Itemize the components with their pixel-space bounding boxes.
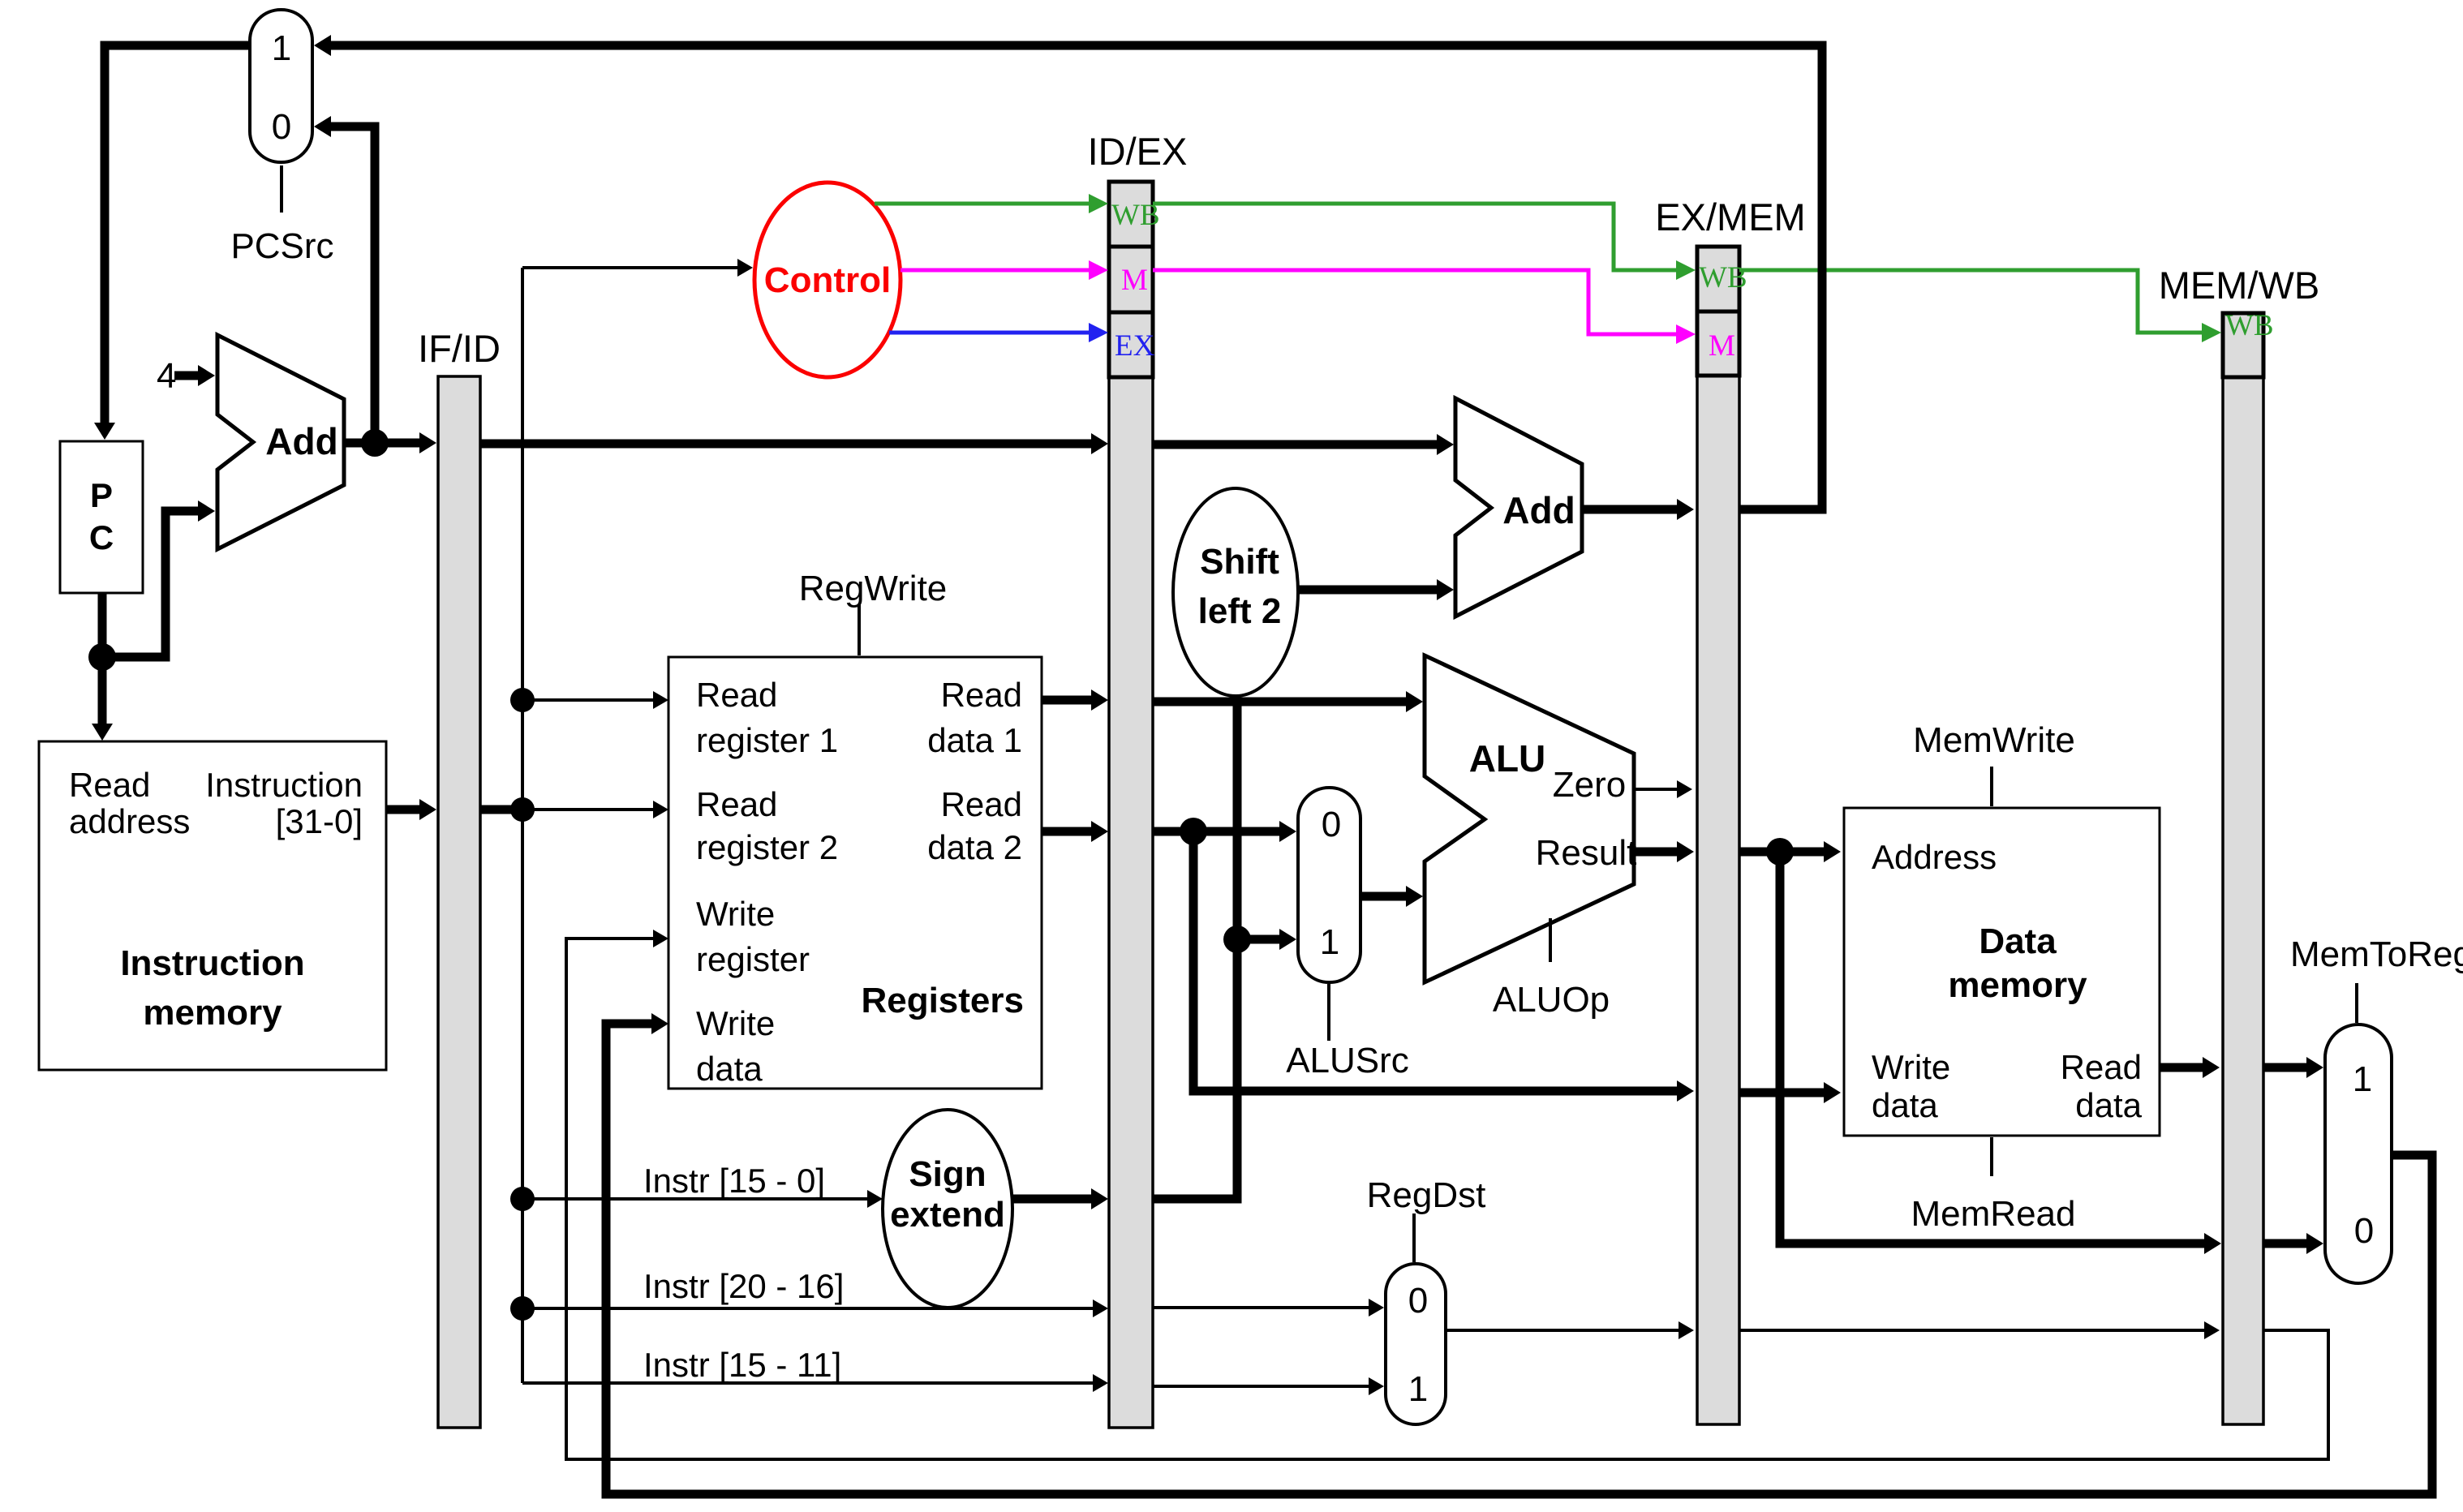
wire: ALU result MEM/WB to MemToReg mux 0 — [2263, 1233, 2323, 1254]
svg-text:WB: WB — [2225, 309, 2274, 342]
svg-text:Read: Read — [696, 785, 777, 823]
svg-text:1: 1 — [272, 28, 291, 68]
svg-text:memory: memory — [1948, 965, 2087, 1005]
wire: Instr[20-16] ID/EX to RegDst mux 0 — [1153, 1299, 1384, 1317]
wire: Read data 2 from ID/EX to ALUSrc mux 0 — [1153, 821, 1296, 842]
pipeline register EX/MEM bar — [1655, 195, 1805, 1424]
wire: green WB ID/EX to EX/MEM — [1153, 204, 1696, 280]
RegWrite label — [799, 569, 948, 655]
wire: green WB Control to ID/EX — [875, 194, 1108, 213]
PCSrc label — [230, 165, 333, 266]
svg-text:Write: Write — [1872, 1048, 1950, 1086]
wire: PC+4 from IF/ID to ID/EX — [480, 433, 1108, 454]
svg-text:RegWrite: RegWrite — [799, 569, 948, 608]
wire: magenta M ID/EX to EX/MEM — [1153, 270, 1696, 344]
svg-text:4: 4 — [157, 356, 176, 396]
svg-text:C: C — [89, 518, 114, 556]
svg-text:Read: Read — [69, 766, 150, 804]
mux RegDst — [1386, 1264, 1446, 1424]
svg-text:EX: EX — [1115, 329, 1155, 363]
junction on Add output — [361, 429, 389, 457]
svg-text:data 2: data 2 — [927, 828, 1022, 866]
svg-text:WB: WB — [1111, 199, 1160, 232]
wire: ALU Zero to EX/MEM — [1634, 780, 1692, 798]
svg-text:Write: Write — [696, 1004, 775, 1042]
svg-text:Write: Write — [696, 895, 775, 933]
svg-text:register: register — [696, 940, 810, 978]
pipeline register MEM/WB bar — [2159, 264, 2319, 1424]
svg-text:data: data — [2075, 1086, 2142, 1124]
wire: RegDst mux output to EX/MEM — [1446, 1321, 1694, 1339]
wire: PCSrc mux output to PC — [94, 45, 250, 440]
instruction memory box — [39, 741, 386, 1070]
wire: branch feedback to PCSrc mux input 1 — [314, 35, 1822, 509]
junction Read data 2 branch — [1180, 818, 1207, 845]
svg-text:data: data — [696, 1050, 763, 1088]
svg-text:ALUSrc: ALUSrc — [1286, 1041, 1409, 1080]
wire: ALU result EX/MEM to data memory Address — [1739, 841, 1841, 862]
ALUOp label — [1493, 918, 1610, 1020]
wire: write register number EX/MEM to MEM/WB — [1739, 1321, 2220, 1339]
MemWrite label — [1913, 720, 2075, 806]
svg-text:Sign: Sign — [909, 1154, 986, 1194]
svg-text:P: P — [90, 476, 113, 514]
svg-text:register 1: register 1 — [696, 721, 838, 759]
junction on PC output — [88, 643, 116, 671]
svg-text:M: M — [1709, 329, 1735, 363]
svg-text:address: address — [69, 802, 190, 840]
svg-text:1: 1 — [1408, 1369, 1428, 1409]
wire: sign extend output to ID/EX — [1012, 1188, 1108, 1209]
svg-text:MEM/WB: MEM/WB — [2159, 264, 2319, 307]
wire: ALU result bypass down to MEM/WB — [1780, 852, 2221, 1254]
wire: Instr[20-16] to ID/EX — [522, 1299, 1108, 1317]
svg-text:Shift: Shift — [1200, 542, 1279, 582]
wire: Instr[15-0] to sign extend — [522, 1190, 883, 1208]
svg-text:[31-0]: [31-0] — [276, 802, 363, 840]
junction Instr[20-16] — [510, 1296, 535, 1321]
svg-text:memory: memory — [143, 993, 282, 1033]
svg-text:left 2: left 2 — [1198, 591, 1282, 631]
svg-text:Data: Data — [1979, 921, 2057, 961]
svg-text:Address: Address — [1872, 838, 1997, 876]
wire: Read data 1 to ID/EX — [1042, 689, 1108, 711]
data memory box — [1844, 808, 2160, 1136]
svg-text:Registers: Registers — [861, 981, 1024, 1020]
junction sign extend branch — [1223, 926, 1251, 953]
mux ALUSrc — [1298, 788, 1360, 982]
svg-text:IF/ID: IF/ID — [418, 327, 501, 370]
PC register — [60, 441, 143, 593]
wire: magenta M Control to ID/EX — [901, 260, 1108, 280]
wire: Read data 2 branch down to write data — [1193, 831, 1694, 1102]
svg-text:data: data — [1872, 1086, 1938, 1124]
shift left 2 ellipse — [1173, 488, 1298, 696]
wire: Read data MEM/WB to MemToReg mux 1 — [2263, 1057, 2323, 1078]
wire: Add output to IF/ID — [344, 432, 436, 453]
MemToReg label — [2290, 934, 2463, 1023]
svg-text:MemToReg: MemToReg — [2290, 934, 2463, 974]
pipeline register IF/ID bar — [418, 327, 501, 1428]
MemRead label — [1911, 1137, 2076, 1234]
wire: instruction to Read register 2 — [522, 801, 668, 818]
svg-text:EX/MEM: EX/MEM — [1655, 195, 1805, 238]
registers file box — [668, 657, 1042, 1089]
wire: PC output branch up to Add — [102, 500, 215, 657]
svg-text:MemRead: MemRead — [1911, 1194, 2076, 1234]
svg-text:1: 1 — [2353, 1059, 2372, 1099]
svg-text:ID/EX: ID/EX — [1088, 130, 1188, 173]
svg-text:Instr [15 - 11]: Instr [15 - 11] — [643, 1346, 841, 1384]
svg-text:Instr [15 - 0]: Instr [15 - 0] — [643, 1162, 825, 1200]
svg-text:Instruction: Instruction — [205, 766, 363, 804]
adder Add (branch target) — [1455, 398, 1582, 616]
wire: shift left 2 output to branch Add — [1298, 579, 1454, 600]
svg-text:Add: Add — [1502, 489, 1575, 531]
svg-text:register 2: register 2 — [696, 828, 838, 866]
wire: ALUSrc mux output to ALU — [1360, 886, 1423, 907]
wire: PC+4 from ID/EX to branch Add — [1153, 434, 1454, 455]
control unit ellipse — [754, 183, 901, 377]
svg-text:data 1: data 1 — [927, 721, 1022, 759]
ALU — [1425, 655, 1636, 982]
wire: write data EX/MEM to data memory — [1739, 1082, 1841, 1103]
pipeline register ID/EX bar — [1088, 130, 1188, 1428]
wire: Read data memory to MEM/WB — [2160, 1057, 2220, 1078]
ALUSrc label — [1286, 984, 1409, 1080]
junction instruction/readreg2 — [510, 797, 535, 822]
wire: Instr[15-11] ID/EX to RegDst mux 1 — [1153, 1377, 1384, 1395]
wire: instruction memory output to IF/ID — [386, 799, 436, 820]
wire: branch Add output to EX/MEM — [1582, 499, 1694, 520]
wire: instruction bus after IF/ID — [480, 805, 522, 814]
svg-text:extend: extend — [890, 1195, 1005, 1235]
svg-text:0: 0 — [272, 107, 291, 147]
svg-text:0: 0 — [1408, 1281, 1428, 1321]
wire: MemToReg mux output back to Write data — [606, 1013, 2432, 1494]
svg-text:0: 0 — [2354, 1211, 2374, 1251]
wire: Read data 1 from ID/EX to ALU — [1153, 691, 1423, 712]
mux PCSrc — [250, 10, 312, 162]
wire: instruction bus vertical — [521, 268, 524, 1383]
mux MemToReg — [2325, 1024, 2392, 1283]
constant 4 input to Add — [157, 356, 215, 396]
svg-text:MemWrite: MemWrite — [1913, 720, 2075, 760]
svg-text:WB: WB — [1699, 261, 1747, 294]
sign extend ellipse — [883, 1110, 1012, 1308]
wire: Instr[15-11] to ID/EX — [522, 1374, 1108, 1392]
svg-text:ALUOp: ALUOp — [1493, 980, 1610, 1020]
svg-text:Control: Control — [764, 260, 891, 300]
svg-text:RegDst: RegDst — [1367, 1175, 1486, 1215]
wire: instruction to Read register 1 — [522, 691, 668, 709]
wire: PC output down to instruction memory — [92, 593, 113, 741]
svg-text:Instruction: Instruction — [120, 943, 304, 983]
svg-text:0: 0 — [1322, 805, 1341, 844]
svg-text:M: M — [1121, 264, 1148, 297]
svg-text:Read: Read — [941, 676, 1022, 714]
wire: blue EX Control to ID/EX — [889, 323, 1108, 342]
adder Add (PC+4) — [217, 335, 344, 549]
junction ALU result — [1766, 838, 1794, 866]
svg-text:Read: Read — [696, 676, 777, 714]
wire: Read data 2 to ID/EX — [1042, 821, 1108, 842]
wire: sign extended value up to shift left 2 — [1153, 698, 1237, 1199]
wire: green WB EX/MEM to MEM/WB — [1739, 270, 2221, 342]
svg-text:Instr [20 - 16]: Instr [20 - 16] — [643, 1267, 844, 1305]
wire: ALU Result to EX/MEM — [1634, 841, 1694, 862]
svg-text:Result: Result — [1536, 833, 1637, 873]
wire: write register number back to Registers — [566, 930, 2328, 1459]
wire: PC+4 into PCSrc mux input 0 — [314, 116, 375, 443]
RegDst label — [1367, 1175, 1486, 1262]
wire: instruction to Control — [522, 259, 753, 277]
svg-text:ALU: ALU — [1469, 737, 1546, 780]
junction instruction/readreg1 — [510, 688, 535, 712]
svg-text:Read: Read — [941, 785, 1022, 823]
svg-text:Read: Read — [2061, 1048, 2142, 1086]
svg-text:PCSrc: PCSrc — [230, 226, 333, 266]
svg-text:Add: Add — [265, 420, 337, 462]
wire: sign extended value to ALUSrc mux 1 — [1237, 929, 1296, 950]
svg-text:Zero: Zero — [1553, 765, 1626, 805]
junction Instr[15-0] — [510, 1187, 535, 1211]
svg-text:1: 1 — [1320, 922, 1339, 962]
